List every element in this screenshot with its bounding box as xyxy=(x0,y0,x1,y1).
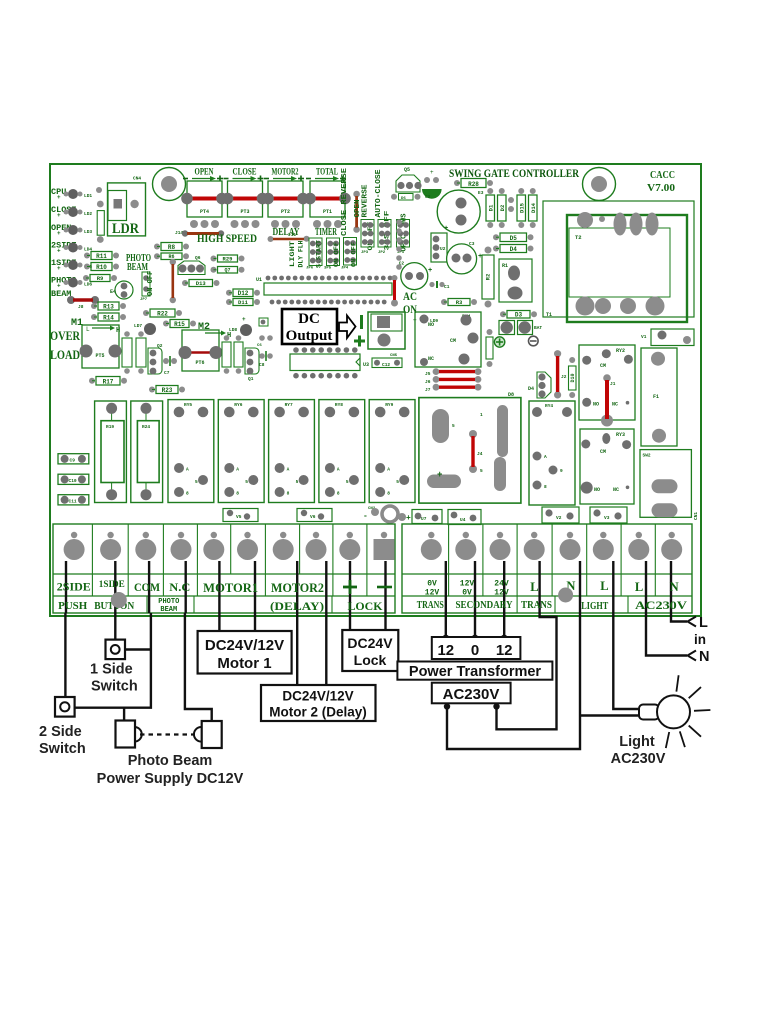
svg-text:12: 12 xyxy=(437,642,454,659)
mains input arrows L in N xyxy=(688,615,710,665)
wire 0V/12V down xyxy=(445,613,447,637)
svg-text:1 Side: 1 Side xyxy=(90,662,133,678)
svg-text:DC24V: DC24V xyxy=(347,635,393,651)
jumper header JP1 xyxy=(397,220,410,256)
pads E3 node xyxy=(508,197,514,212)
photo beam left unit xyxy=(116,721,142,748)
terminal LOCK + xyxy=(339,532,360,560)
svg-text:2SIDE: 2SIDE xyxy=(57,582,91,594)
label Photo Beam Power Supply DC12V xyxy=(97,753,244,787)
resistor D11 xyxy=(226,299,260,307)
svg-text:D5: D5 xyxy=(510,235,518,242)
resistor R11 xyxy=(84,252,119,261)
capacitor C8 xyxy=(259,351,273,368)
diode D2 xyxy=(498,188,507,228)
wire MOTOR2 b down xyxy=(325,613,327,685)
light bulb xyxy=(639,675,710,748)
resistor R10 xyxy=(84,263,119,272)
diode D3 xyxy=(500,311,537,319)
diode D13 xyxy=(182,280,220,288)
svg-text:C2: C2 xyxy=(399,261,405,267)
svg-text:LD8: LD8 xyxy=(229,327,237,333)
switch SW2 xyxy=(640,450,691,518)
svg-text:CN4: CN4 xyxy=(133,176,141,182)
svg-text:T2: T2 xyxy=(575,234,582,241)
label AC ON xyxy=(403,289,417,316)
svg-text:PHOTO: PHOTO xyxy=(158,598,179,606)
resistor R14 xyxy=(91,313,126,322)
svg-text:R3: R3 xyxy=(456,299,463,306)
svg-text:RY7: RY7 xyxy=(285,402,293,408)
transistor Q2 xyxy=(148,343,163,374)
resistor module R24 xyxy=(131,401,163,503)
svg-text:PT3: PT3 xyxy=(240,209,249,215)
terminal label 24V 12V xyxy=(494,580,509,598)
label 1SIDE + LED LD5 xyxy=(51,258,92,272)
jumper J13 xyxy=(170,259,176,303)
svg-text:5: 5 xyxy=(346,479,349,485)
wire stubs through terminal strip xyxy=(66,561,671,613)
svg-text:C2: C2 xyxy=(425,194,431,200)
terminal MOTOR1 a xyxy=(203,532,224,560)
svg-text:AUTO-CLOSE: AUTO-CLOSE xyxy=(375,170,383,218)
svg-text:N: N xyxy=(670,580,679,594)
svg-text:L: L xyxy=(530,580,538,594)
svg-text:5: 5 xyxy=(296,479,299,485)
annotation arrow right xyxy=(339,316,356,339)
svg-text:R29: R29 xyxy=(223,256,233,263)
resistor R16 xyxy=(122,331,132,374)
svg-text:PT6: PT6 xyxy=(195,360,204,366)
varistor VR5 (green) xyxy=(422,169,442,199)
svg-text:JP2: JP2 xyxy=(378,251,386,255)
resistor R18 xyxy=(136,331,146,374)
svg-text:U3: U3 xyxy=(363,362,369,368)
IC U1 xyxy=(256,276,392,305)
resistor R20 xyxy=(222,335,231,374)
svg-text:Power Supply DC12V: Power Supply DC12V xyxy=(97,771,244,787)
svg-text:A: A xyxy=(186,467,189,473)
svg-text:JP6: JP6 xyxy=(306,267,314,271)
svg-text:V3: V3 xyxy=(604,515,610,521)
svg-text:8: 8 xyxy=(186,491,189,497)
potentiometer PT4 (OPEN) xyxy=(181,168,228,218)
jumper J5 xyxy=(425,368,481,377)
svg-text:Motor 1: Motor 1 xyxy=(217,655,271,672)
svg-text:R1: R1 xyxy=(502,263,508,269)
capacitor C10 xyxy=(58,474,89,484)
diode D6 xyxy=(391,194,421,202)
resistor R29 xyxy=(211,255,245,263)
capacitor C7 xyxy=(163,356,177,376)
led LD7 xyxy=(134,323,156,335)
varistor V3 xyxy=(590,507,627,523)
relay RY6 xyxy=(218,400,264,503)
svg-text:LD6: LD6 xyxy=(84,282,92,288)
transformer primary dots xyxy=(444,703,500,709)
svg-text:CM: CM xyxy=(450,338,456,344)
diode D9 disc xyxy=(363,506,411,523)
svg-text:-: - xyxy=(363,512,368,521)
resistor R6 xyxy=(154,253,189,260)
power relay K1 xyxy=(419,392,521,503)
fuse F1 xyxy=(641,348,677,446)
wire TRANS L to AC230V right dot xyxy=(497,613,557,729)
jumper J10 xyxy=(259,318,268,326)
svg-text:R17: R17 xyxy=(103,379,114,386)
resistor module R19 xyxy=(95,401,127,503)
svg-text:D11: D11 xyxy=(238,299,249,306)
svg-text:U4: U4 xyxy=(460,517,466,523)
svg-text:D8: D8 xyxy=(508,392,514,398)
svg-text:R19: R19 xyxy=(106,424,114,430)
resistor R8 xyxy=(154,243,189,252)
potentiometer PT2 (MOTOR2) xyxy=(262,168,309,218)
svg-text:C8: C8 xyxy=(259,362,265,368)
label PHOTO BEAM xyxy=(126,253,151,273)
svg-text:C10: C10 xyxy=(69,478,77,484)
svg-text:12V: 12V xyxy=(494,589,509,598)
jumper J8 xyxy=(67,296,99,310)
svg-text:CLOSE REVERSE: CLOSE REVERSE xyxy=(341,168,349,236)
svg-text:LD2: LD2 xyxy=(84,211,92,217)
terminal LOCK - xyxy=(374,532,395,560)
annotation box DC24V Lock xyxy=(342,630,398,671)
wire AC230V L terminal to N input xyxy=(646,613,687,656)
svg-text:8: 8 xyxy=(287,491,290,497)
led LD8 xyxy=(229,316,252,336)
pads below PT3 xyxy=(231,220,260,228)
svg-text:A: A xyxy=(544,454,547,460)
svg-text:LOCK: LOCK xyxy=(348,601,383,613)
svg-text:D12: D12 xyxy=(238,290,249,297)
svg-text:+: + xyxy=(57,212,61,219)
relay RY9 xyxy=(369,400,415,503)
svg-text:LD1: LD1 xyxy=(84,193,92,199)
annotation box 12 0 12 xyxy=(432,637,521,659)
varistor U4 xyxy=(448,510,481,525)
svg-text:J4: J4 xyxy=(477,451,483,457)
svg-text:Switch: Switch xyxy=(91,679,138,695)
svg-text:AC: AC xyxy=(403,289,417,303)
wire N.C to photo beam right xyxy=(185,613,212,721)
svg-text:DLY FLH: DLY FLH xyxy=(298,240,305,267)
svg-text:CM: CM xyxy=(600,363,606,369)
terminal LIGHT L xyxy=(593,532,614,560)
transistor Q1 xyxy=(245,348,259,382)
wire TRANS N to AC230V left dot xyxy=(447,613,580,749)
svg-text:TOTAL: TOTAL xyxy=(316,168,338,178)
switch 2 Side box xyxy=(55,697,75,717)
svg-text:C1: C1 xyxy=(444,284,450,290)
svg-text:Light: Light xyxy=(619,734,655,750)
diode D1 xyxy=(486,188,495,228)
transistor Q6 xyxy=(178,255,205,275)
svg-text:C7: C7 xyxy=(164,370,170,376)
svg-text:E3: E3 xyxy=(478,190,484,196)
svg-text:0: 0 xyxy=(471,642,479,659)
terminal 12V/0V xyxy=(455,532,476,560)
svg-text:RY9: RY9 xyxy=(385,402,393,408)
resistor R3 xyxy=(441,299,477,307)
terminal AC230V L xyxy=(628,532,649,560)
svg-text:+: + xyxy=(444,225,448,233)
svg-text:DC24V/12V: DC24V/12V xyxy=(205,637,284,654)
svg-text:+: + xyxy=(430,169,434,176)
svg-text:L: L xyxy=(600,579,608,593)
group label PUSH BUTTON xyxy=(58,601,134,612)
terminal 24V/12V xyxy=(490,532,511,560)
svg-text:L: L xyxy=(699,615,708,631)
switch 1 Side box xyxy=(106,640,126,660)
svg-text:2 Side: 2 Side xyxy=(39,724,82,740)
wire 2SIDE terminal down xyxy=(64,613,66,698)
svg-text:TIMER: TIMER xyxy=(315,227,337,238)
relay RY7 xyxy=(269,400,315,503)
svg-text:PT4: PT4 xyxy=(200,209,209,215)
label CLOSE + LED LD2 xyxy=(51,205,92,219)
resistor R2 xyxy=(482,247,494,308)
svg-text:Power Transformer: Power Transformer xyxy=(409,664,542,680)
svg-text:R13: R13 xyxy=(103,304,114,311)
svg-text:U1: U1 xyxy=(256,277,262,283)
relay RY4 xyxy=(529,401,575,505)
svg-text:+: + xyxy=(57,230,61,237)
svg-text:R8: R8 xyxy=(168,244,176,251)
svg-text:NC: NC xyxy=(612,402,618,408)
svg-text:D2: D2 xyxy=(499,205,506,212)
svg-text:RY2: RY2 xyxy=(616,348,625,354)
wire AC230V N terminal to L input xyxy=(671,613,687,622)
svg-text:12V: 12V xyxy=(460,580,475,589)
wire N tap to light bulb xyxy=(580,714,640,716)
via pad blob near N xyxy=(558,588,573,603)
jumper header JP7 xyxy=(140,272,150,302)
terminal label 0V 12V xyxy=(425,580,440,598)
jumper J14 xyxy=(175,230,224,237)
annotation DC Output box xyxy=(282,309,337,344)
jumper header JP4 xyxy=(341,238,357,271)
svg-text:Switch: Switch xyxy=(39,741,86,757)
transformer connection dots xyxy=(442,635,507,642)
svg-text:JP3: JP3 xyxy=(361,251,369,255)
svg-text:D14: D14 xyxy=(530,202,537,213)
wire 24V/12V down xyxy=(503,613,505,637)
pads left of LDR xyxy=(96,187,102,193)
svg-text:CLOSE: CLOSE xyxy=(233,168,257,178)
jumper header JP1 column xyxy=(396,219,402,270)
transistor D4 footprint xyxy=(528,372,551,398)
svg-text:TRANS: TRANS xyxy=(521,600,552,611)
diode D14 xyxy=(529,188,538,228)
LDR sensor U5 xyxy=(108,183,146,237)
svg-text:R24: R24 xyxy=(142,424,150,430)
transformer T1 outer box xyxy=(543,201,694,318)
label Light AC230V xyxy=(611,734,666,767)
terminal COM xyxy=(135,532,156,560)
wire LIGHT L down to bulb xyxy=(613,613,640,709)
battery pad negative xyxy=(518,321,543,335)
terminal 0V/12V xyxy=(421,532,442,560)
svg-text:NC: NC xyxy=(428,356,434,362)
svg-text:TRANS: TRANS xyxy=(417,600,444,611)
mounting hole top-right xyxy=(583,168,616,201)
pads below PT4 xyxy=(190,220,219,228)
wire LOCK - down xyxy=(384,613,386,630)
terminal 2SIDE a xyxy=(64,532,85,560)
svg-text:PT5: PT5 xyxy=(95,353,104,359)
svg-text:J11: J11 xyxy=(288,232,296,238)
svg-text:MOTOR2: MOTOR2 xyxy=(272,168,299,178)
svg-text:L: L xyxy=(635,580,643,594)
relay RY5 xyxy=(168,400,214,503)
svg-text:ON OFF: ON OFF xyxy=(351,242,358,267)
diode D15 xyxy=(517,188,526,228)
label 2SIDE + LED LD4 xyxy=(51,241,92,255)
svg-text:PT2: PT2 xyxy=(281,209,290,215)
terminal MOTOR2 a xyxy=(273,532,294,560)
svg-text:5: 5 xyxy=(396,479,399,485)
svg-text:Q7: Q7 xyxy=(224,268,230,274)
IC U3 xyxy=(290,347,369,378)
svg-text:NO: NO xyxy=(594,487,600,493)
terminal label + xyxy=(343,580,357,594)
relay RY1 xyxy=(415,312,481,367)
capacitor C1 xyxy=(429,281,449,290)
label M2 with arrow xyxy=(198,322,231,340)
svg-text:SW2: SW2 xyxy=(643,453,651,459)
regulator U2 xyxy=(431,233,447,262)
svg-text:R28: R28 xyxy=(468,181,479,188)
terminal MOTOR2 b xyxy=(306,532,327,560)
svg-text:Q6: Q6 xyxy=(195,255,201,261)
svg-text:LOAD: LOAD xyxy=(50,347,80,362)
terminal label 12V 0V xyxy=(460,580,475,598)
svg-text:NO: NO xyxy=(428,322,434,328)
resistor R28 xyxy=(454,179,493,189)
relay RY8 xyxy=(319,400,365,503)
potentiometer PT5 xyxy=(80,325,122,368)
svg-text:C11: C11 xyxy=(69,499,77,505)
varistor V5 xyxy=(223,509,258,522)
label 2 Side Switch xyxy=(39,724,86,757)
potentiometer PT3 (CLOSE) xyxy=(222,168,269,218)
jumper header JP3 xyxy=(361,220,374,256)
svg-text:PT1: PT1 xyxy=(323,209,332,215)
svg-text:R11: R11 xyxy=(96,253,107,260)
terminal AC230V N xyxy=(661,532,682,560)
terminal MOTOR1 b xyxy=(237,532,258,560)
svg-text:R2: R2 xyxy=(485,274,492,281)
photo beam right unit xyxy=(194,721,222,748)
svg-text:ON OFF: ON OFF xyxy=(333,242,340,267)
svg-text:J8: J8 xyxy=(78,304,84,310)
jumper J11 xyxy=(268,232,310,242)
group label PHOTO BEAM xyxy=(158,598,179,614)
wire 12V/0V down xyxy=(474,613,476,637)
resistor R7 xyxy=(211,267,245,274)
svg-text:+: + xyxy=(57,194,61,201)
pads below PT1 xyxy=(313,220,342,228)
svg-text:Lock: Lock xyxy=(354,652,387,668)
svg-text:LIGHT: LIGHT xyxy=(289,240,296,267)
svg-text:D1: D1 xyxy=(487,204,494,211)
svg-text:JP4: JP4 xyxy=(341,267,349,271)
svg-text:3P5: 3P5 xyxy=(324,267,332,271)
label OVER LOAD xyxy=(50,328,80,362)
svg-text:CM: CM xyxy=(600,449,606,455)
electrolytic E4 xyxy=(110,281,133,299)
svg-text:R9: R9 xyxy=(97,275,104,282)
svg-text:R10: R10 xyxy=(96,264,107,271)
svg-text:D6: D6 xyxy=(401,197,406,201)
svg-text:8: 8 xyxy=(337,491,340,497)
capacitor C12 box xyxy=(372,354,402,368)
svg-text:Photo Beam: Photo Beam xyxy=(128,753,213,769)
svg-text:J6: J6 xyxy=(425,379,431,385)
svg-text:ON OFF: ON OFF xyxy=(147,271,155,296)
svg-text:(DELAY): (DELAY) xyxy=(270,601,324,613)
label OPEN + LED LD3 xyxy=(51,223,92,237)
svg-text:A: A xyxy=(236,467,239,473)
svg-text:CN5: CN5 xyxy=(390,354,398,358)
svg-text:C12: C12 xyxy=(382,362,390,368)
svg-text:Q2: Q2 xyxy=(157,343,163,349)
svg-text:RY8: RY8 xyxy=(335,402,343,408)
annotation box Power Transformer xyxy=(397,662,552,681)
wire MOTOR1 b down xyxy=(254,613,256,631)
transistor Q5 xyxy=(396,167,422,192)
svg-text:D4: D4 xyxy=(528,386,534,392)
svg-text:Q5: Q5 xyxy=(404,167,410,173)
wire LOCK + down xyxy=(349,613,351,630)
svg-text:J2: J2 xyxy=(561,374,567,380)
svg-text:V1: V1 xyxy=(641,334,647,340)
svg-text:LD7: LD7 xyxy=(134,323,142,329)
transformer T2 xyxy=(567,212,687,322)
capacitor C5 xyxy=(437,190,480,233)
svg-text:Output: Output xyxy=(286,328,333,344)
svg-text:LDR: LDR xyxy=(112,221,139,237)
svg-text:+: + xyxy=(242,316,246,323)
capacitor C2 xyxy=(401,263,432,290)
svg-text:8: 8 xyxy=(544,484,547,490)
wire junction down to photo beam left xyxy=(123,708,125,721)
svg-text:Motor 2 (Delay): Motor 2 (Delay) xyxy=(269,705,367,720)
svg-text:D3: D3 xyxy=(515,312,523,319)
svg-text:CN1: CN1 xyxy=(693,512,699,520)
capacitor C9 xyxy=(58,454,89,464)
svg-text:J5: J5 xyxy=(425,371,431,377)
svg-text:HIGH SPEED: HIGH SPEED xyxy=(197,233,257,245)
label CPU + LED LD1 xyxy=(51,187,92,201)
resistor R17 xyxy=(89,377,127,386)
varistor V1 xyxy=(641,329,694,346)
svg-text:8: 8 xyxy=(387,491,390,497)
svg-text:1SIDE: 1SIDE xyxy=(99,580,125,590)
svg-text:DC24V/12V: DC24V/12V xyxy=(282,689,353,704)
svg-text:NO: NO xyxy=(593,402,599,408)
svg-text:12V: 12V xyxy=(425,589,440,598)
wire MOTOR1 a down xyxy=(218,613,220,631)
svg-text:C9: C9 xyxy=(70,458,76,464)
svg-text:SECONDARY: SECONDARY xyxy=(456,600,514,611)
svg-text:D13: D13 xyxy=(196,280,207,287)
varistor U7 xyxy=(412,510,442,524)
svg-text:MOTOR2: MOTOR2 xyxy=(271,581,324,595)
plus symbol xyxy=(494,337,504,347)
connector CN5 DC output xyxy=(368,312,405,349)
